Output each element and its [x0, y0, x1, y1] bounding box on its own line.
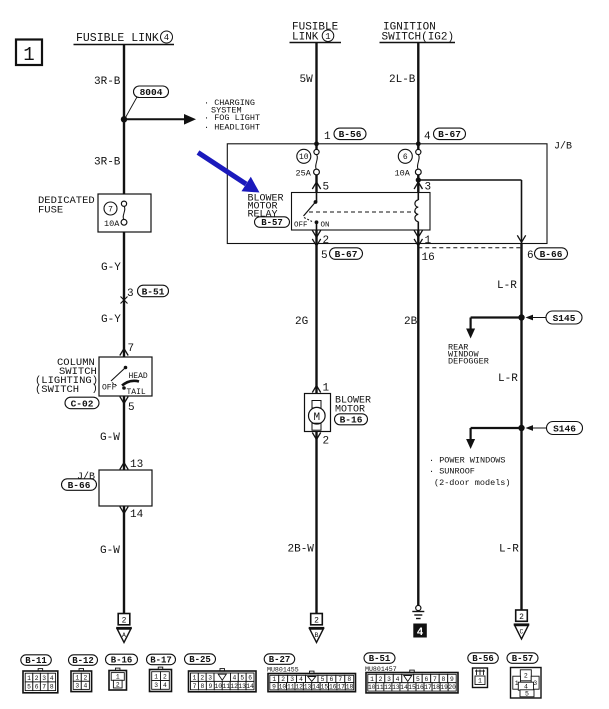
- svg-text:8: 8: [50, 684, 54, 691]
- svg-text:18: 18: [432, 684, 440, 691]
- connector B-17 label: [147, 654, 176, 665]
- svg-text:16: 16: [422, 252, 435, 264]
- svg-text:1: 1: [425, 235, 432, 247]
- wire W3 2B segment: [417, 244, 419, 606]
- svg-text:2: 2: [524, 673, 528, 680]
- connector B-25 pinout: [189, 669, 257, 692]
- svg-text:4: 4: [417, 627, 424, 639]
- svg-text:1: 1: [154, 673, 158, 680]
- svg-text:3: 3: [154, 682, 158, 689]
- svg-text:9: 9: [450, 676, 454, 683]
- svg-text:OFF: OFF: [294, 222, 308, 230]
- svg-text:(2-door models): (2-door models): [434, 478, 511, 488]
- svg-text:1: 1: [325, 32, 330, 42]
- svg-text:15: 15: [408, 684, 416, 691]
- pin 13 of J/B: [120, 459, 143, 471]
- svg-text:G-W: G-W: [100, 432, 120, 444]
- label list: charging system, fog light, headlight: [204, 98, 260, 133]
- svg-text:5: 5: [27, 684, 31, 691]
- svg-text:13: 13: [304, 684, 312, 691]
- svg-text:14: 14: [312, 684, 320, 691]
- svg-text:7: 7: [42, 684, 46, 691]
- svg-text:): ): [92, 383, 98, 395]
- wire W2 2B-W segment: [315, 432, 317, 614]
- blower motor labels: [335, 396, 372, 426]
- junction block J/B B-66 box: [99, 470, 152, 506]
- sheet continuation triangle C: [514, 625, 530, 640]
- svg-text:17: 17: [337, 684, 345, 691]
- svg-text:2: 2: [116, 681, 120, 688]
- svg-text:4: 4: [396, 676, 400, 683]
- terminal 2 of wire W1: [118, 614, 130, 626]
- svg-text:· HEADLIGHT: · HEADLIGHT: [204, 123, 260, 133]
- svg-text:3: 3: [387, 676, 391, 683]
- blower motor box with motor M: [305, 394, 331, 432]
- header IGNITION SWITCH(IG2): [380, 22, 456, 44]
- svg-text:10A: 10A: [104, 219, 120, 229]
- pin 1 of relay: [414, 230, 431, 247]
- branch to power windows / sunroof: [466, 428, 521, 449]
- svg-text:G-Y: G-Y: [101, 314, 121, 326]
- dedicated fuse label: [38, 195, 95, 217]
- svg-text:6: 6: [35, 684, 39, 691]
- svg-text:3: 3: [208, 674, 212, 681]
- svg-text:7: 7: [433, 676, 437, 683]
- splice node 8004: [121, 86, 169, 123]
- svg-text:S146: S146: [553, 423, 576, 434]
- connector B-12 pinout: [71, 669, 92, 692]
- svg-text:M: M: [313, 412, 320, 424]
- svg-text:9: 9: [272, 684, 276, 691]
- svg-text:S145: S145: [553, 313, 576, 324]
- svg-text:L-R: L-R: [499, 544, 519, 556]
- svg-text:B-25: B-25: [189, 655, 211, 665]
- svg-text:18: 18: [346, 684, 354, 691]
- branch to rear window defogger: [466, 318, 521, 339]
- svg-text:(SWITCH: (SWITCH: [35, 384, 79, 396]
- svg-text:B: B: [315, 632, 319, 639]
- svg-text:25A: 25A: [296, 169, 312, 179]
- svg-text:L-R: L-R: [498, 373, 518, 385]
- wire W3 2L-B segment: [417, 43, 419, 144]
- svg-text:3: 3: [42, 675, 46, 682]
- svg-text:FUSE: FUSE: [38, 205, 63, 217]
- relay internal dashed link: [309, 211, 415, 213]
- svg-text:12: 12: [230, 683, 238, 690]
- connector B-57 label: [507, 653, 538, 664]
- svg-text:8004: 8004: [140, 87, 163, 98]
- wire W2 5W segment: [315, 43, 317, 144]
- svg-text:2: 2: [200, 674, 204, 681]
- svg-text:1: 1: [75, 675, 79, 682]
- wire W4 L-R middle segment: [520, 318, 522, 429]
- svg-text:13: 13: [238, 683, 246, 690]
- pin 1 of blower motor: [312, 383, 329, 395]
- svg-text:· POWER WINDOWS: · POWER WINDOWS: [429, 456, 506, 466]
- connector B-56 label: [468, 653, 499, 664]
- svg-text:B-57: B-57: [261, 218, 283, 228]
- connector B-27 label: [264, 654, 295, 665]
- svg-text:B-66: B-66: [68, 480, 91, 491]
- svg-text:OFF: OFF: [102, 384, 117, 393]
- svg-text:B-27: B-27: [269, 655, 291, 665]
- pin 5 of relay: [312, 182, 329, 194]
- svg-text:10: 10: [279, 684, 287, 691]
- connector B-11 label: [21, 655, 52, 666]
- sheet number box 1: [16, 40, 42, 67]
- junction block J/B outline: [227, 144, 547, 244]
- svg-text:8: 8: [442, 676, 446, 683]
- svg-text:B-51: B-51: [369, 654, 391, 664]
- svg-text:2L-B: 2L-B: [389, 74, 416, 86]
- svg-text:12: 12: [384, 684, 392, 691]
- column switch (lighting switch) labels: [35, 357, 98, 396]
- svg-text:13: 13: [392, 684, 400, 691]
- pin 7 of column switch: [120, 343, 134, 356]
- svg-text:1: 1: [23, 44, 34, 66]
- svg-text:MU801455: MU801455: [267, 667, 299, 674]
- label rear window defogger: [448, 343, 489, 367]
- svg-text:11: 11: [376, 684, 384, 691]
- splice S146: [518, 422, 582, 435]
- svg-text:20: 20: [448, 684, 456, 691]
- svg-text:11: 11: [222, 683, 230, 690]
- svg-text:2: 2: [122, 616, 127, 625]
- svg-text:10: 10: [215, 683, 223, 690]
- svg-text:4: 4: [50, 675, 54, 682]
- svg-text:4: 4: [83, 683, 87, 690]
- pin 5 B-67 exit of J/B: [312, 239, 362, 262]
- header FUSIBLE LINK 1: [290, 22, 342, 44]
- wire W1 G-Y segment: [123, 232, 125, 357]
- inline connector 3 B-51: [121, 285, 169, 303]
- svg-text:B-12: B-12: [72, 656, 94, 666]
- svg-text:2G: 2G: [295, 316, 308, 328]
- pin 5 of column switch: [120, 397, 135, 415]
- ground symbol on W3: [412, 605, 424, 618]
- svg-text:3: 3: [425, 182, 432, 194]
- junction dot on W3 at pin 3 branch: [416, 177, 421, 182]
- svg-text:2: 2: [519, 613, 524, 622]
- svg-text:DEFOGGER: DEFOGGER: [448, 357, 489, 367]
- svg-text:7: 7: [108, 205, 113, 214]
- svg-text:2: 2: [83, 675, 87, 682]
- ground reference black box 4: [413, 624, 427, 640]
- connector B-16 pinout: [109, 668, 127, 690]
- connector B-25 label: [185, 654, 216, 665]
- svg-text:4: 4: [164, 33, 169, 43]
- svg-text:9: 9: [208, 683, 212, 690]
- svg-text:14: 14: [246, 683, 254, 690]
- svg-text:2B-W: 2B-W: [288, 544, 315, 556]
- label power windows / sunroof: [429, 456, 511, 489]
- svg-text:G-Y: G-Y: [101, 262, 121, 274]
- pin 16 exit of J/B: [414, 239, 435, 264]
- dashed link below J/B: [418, 247, 521, 249]
- wire W1 3R-B upper segment: [123, 45, 125, 120]
- svg-text:1: 1: [193, 674, 197, 681]
- svg-text:1: 1: [323, 383, 330, 395]
- svg-text:5: 5: [323, 182, 330, 194]
- connector 1 B-56: [324, 128, 366, 143]
- svg-text:B-11: B-11: [25, 656, 47, 666]
- svg-text:2: 2: [314, 616, 319, 625]
- fuse 6 10A on wire W3: [395, 144, 422, 193]
- svg-text:· SUNROOF: · SUNROOF: [429, 467, 475, 477]
- svg-text:7: 7: [128, 343, 135, 355]
- svg-text:14: 14: [130, 509, 144, 521]
- svg-text:5: 5: [525, 691, 529, 698]
- wire W2 relay to J/B bottom: [315, 230, 317, 244]
- terminal 2 of wire W2: [311, 614, 323, 626]
- svg-text:4: 4: [163, 682, 167, 689]
- svg-text:3R-B: 3R-B: [94, 157, 121, 169]
- svg-text:10: 10: [368, 684, 376, 691]
- svg-text:3: 3: [75, 683, 79, 690]
- relay U1 box: [292, 193, 431, 231]
- wire W4 L-R upper segment: [520, 244, 522, 318]
- svg-text:14: 14: [400, 684, 408, 691]
- svg-text:A: A: [122, 632, 126, 639]
- svg-text:B-16: B-16: [340, 415, 363, 426]
- wire W4 L-R lower segment: [520, 428, 522, 610]
- pin 14 of J/B: [120, 507, 144, 522]
- svg-text:6: 6: [248, 674, 252, 681]
- svg-text:8: 8: [201, 683, 205, 690]
- svg-text:ON: ON: [321, 222, 330, 230]
- junction dot W3 at J/B entry: [416, 141, 421, 146]
- svg-text:19: 19: [440, 684, 448, 691]
- svg-text:2B: 2B: [404, 316, 418, 328]
- junction block J/B B-66 labels: [62, 471, 97, 491]
- svg-text:2: 2: [35, 675, 39, 682]
- relay coil: [415, 193, 418, 230]
- relay switch contact OFF/ON: [294, 193, 330, 230]
- svg-text:1: 1: [324, 131, 331, 143]
- svg-text:2: 2: [163, 673, 167, 680]
- dedicated fuse box with fuse 7 10A: [98, 194, 151, 232]
- connector 4 B-67: [424, 128, 466, 143]
- svg-text:4: 4: [424, 131, 431, 143]
- connector B-27 pinout: [268, 671, 356, 692]
- junction dot W2 at J/B entry: [314, 141, 319, 146]
- svg-text:1: 1: [370, 676, 374, 683]
- wire W3 relay to J/B bottom: [417, 230, 419, 244]
- svg-text:G-W: G-W: [100, 545, 120, 557]
- column switch box with OFF/HEAD/TAIL switch: [99, 357, 152, 397]
- wire W1 G-W lower segment: [123, 506, 125, 614]
- blower motor relay labels: [248, 194, 290, 229]
- svg-text:2: 2: [323, 235, 330, 247]
- svg-text:B-16: B-16: [111, 656, 133, 666]
- pin 2 of relay: [312, 230, 329, 247]
- blue annotation arrow pointing at blower motor relay: [198, 153, 260, 193]
- svg-text:5: 5: [240, 674, 244, 681]
- svg-text:B-57: B-57: [512, 654, 534, 664]
- svg-text:3R-B: 3R-B: [94, 76, 121, 88]
- svg-text:16: 16: [329, 684, 337, 691]
- svg-text:B-56: B-56: [339, 129, 362, 140]
- pin 3 of relay: [414, 182, 431, 194]
- pin 6 B-66 exit of J/B: [517, 235, 567, 262]
- svg-text:B-67: B-67: [335, 249, 358, 260]
- connector B-12 label: [69, 655, 98, 666]
- header FUSIBLE LINK 4: [74, 31, 175, 45]
- svg-text:1: 1: [27, 675, 31, 682]
- connector B-56 pinout: [473, 668, 488, 688]
- connector ref C-02: [65, 397, 99, 409]
- svg-text:B-17: B-17: [150, 656, 172, 666]
- svg-text:1: 1: [478, 678, 482, 685]
- svg-text:10A: 10A: [395, 169, 411, 179]
- svg-text:· FOG LIGHT: · FOG LIGHT: [204, 113, 260, 123]
- connector B-57 relay socket pinout: [511, 668, 542, 699]
- svg-text:5W: 5W: [300, 74, 314, 86]
- sheet continuation triangle A: [116, 628, 132, 643]
- svg-text:10: 10: [299, 153, 309, 162]
- svg-text:B-56: B-56: [472, 654, 494, 664]
- svg-text:FUSIBLE LINK: FUSIBLE LINK: [76, 32, 159, 45]
- svg-text:B-51: B-51: [142, 286, 165, 297]
- svg-text:15: 15: [321, 684, 329, 691]
- svg-text:4: 4: [233, 674, 237, 681]
- wire W1 3R-B lower segment: [123, 119, 125, 194]
- svg-text:B-67: B-67: [438, 129, 461, 140]
- svg-text:L-R: L-R: [497, 280, 517, 292]
- svg-text:2: 2: [323, 436, 330, 448]
- connector B-16 label: [106, 654, 138, 665]
- svg-text:16: 16: [416, 684, 424, 691]
- svg-text:6: 6: [425, 676, 429, 683]
- svg-text:13: 13: [130, 459, 143, 471]
- svg-text:5: 5: [128, 402, 135, 414]
- svg-text:12: 12: [295, 684, 303, 691]
- svg-text:HEAD: HEAD: [129, 372, 148, 381]
- fuse 10 25A on wire W2: [296, 144, 320, 193]
- sheet continuation triangle B: [309, 628, 325, 643]
- svg-text:17: 17: [424, 684, 432, 691]
- svg-text:7: 7: [193, 683, 197, 690]
- svg-text:1: 1: [116, 674, 120, 681]
- svg-text:6: 6: [403, 153, 408, 162]
- splice S145: [518, 311, 582, 324]
- svg-text:5: 5: [416, 676, 420, 683]
- svg-text:2: 2: [379, 676, 383, 683]
- wire W1 G-W segment: [123, 396, 125, 470]
- wire W2 2G segment: [315, 244, 317, 394]
- connector B-51 label: [364, 653, 395, 664]
- terminal 2 of wire W4: [516, 610, 528, 622]
- svg-text:5: 5: [321, 250, 328, 262]
- connector B-17 pinout: [150, 667, 172, 691]
- svg-text:6: 6: [527, 250, 534, 262]
- svg-text:11: 11: [287, 684, 295, 691]
- svg-text:TAIL: TAIL: [127, 388, 146, 397]
- arrow to CHARGING SYSTEM / FOG LIGHT / HEADLIGHT: [124, 114, 196, 125]
- connector B-51 pinout: [366, 670, 458, 693]
- svg-text:C-02: C-02: [71, 398, 94, 409]
- branch wire to W4 inside J/B: [418, 179, 521, 181]
- svg-text:B-66: B-66: [540, 249, 563, 260]
- svg-text:3: 3: [127, 288, 134, 300]
- svg-text:J/B: J/B: [554, 141, 572, 153]
- pin 2 of blower motor: [312, 433, 329, 448]
- svg-text:C: C: [520, 629, 524, 636]
- connector B-11 pinout: [23, 669, 58, 693]
